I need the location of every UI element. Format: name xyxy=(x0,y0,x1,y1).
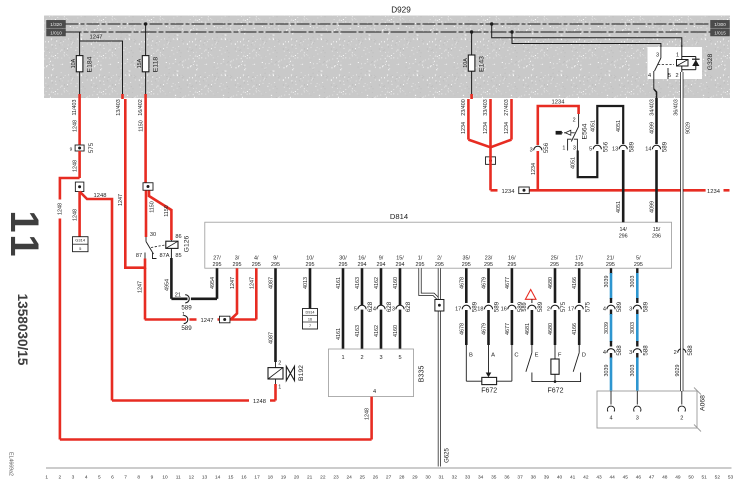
svg-text:C: C xyxy=(514,353,518,359)
connector 3/556 xyxy=(530,142,550,153)
splice 1247 xyxy=(219,316,230,323)
svg-text:1: 1 xyxy=(45,475,48,481)
svg-text:295: 295 xyxy=(435,262,444,268)
svg-text:556: 556 xyxy=(603,141,610,152)
svg-text:15/: 15/ xyxy=(653,227,661,233)
svg-text:3: 3 xyxy=(629,350,632,356)
svg-text:9: 9 xyxy=(70,146,73,152)
svg-text:589: 589 xyxy=(643,301,650,312)
connector 1/589 red xyxy=(181,312,192,332)
svg-text:39: 39 xyxy=(544,475,550,481)
svg-text:E118: E118 xyxy=(152,57,159,73)
svg-text:13: 13 xyxy=(202,475,208,481)
svg-text:6: 6 xyxy=(111,475,114,481)
svg-text:589: 589 xyxy=(181,305,192,312)
wire 1248 bottom run xyxy=(60,438,372,441)
svg-text:16/: 16/ xyxy=(508,256,516,262)
svg-text:4051: 4051 xyxy=(571,157,577,169)
svg-text:11/403: 11/403 xyxy=(72,99,78,115)
svg-text:27/: 27/ xyxy=(213,256,221,262)
wire 1248 branch left xyxy=(55,178,79,440)
svg-text:295: 295 xyxy=(213,262,222,268)
svg-text:1234: 1234 xyxy=(461,122,467,134)
svg-text:295: 295 xyxy=(550,262,559,268)
wire 1247 horizontal xyxy=(145,315,257,325)
svg-text:3/: 3/ xyxy=(235,256,240,262)
connector 5/556 xyxy=(589,141,609,152)
svg-text:1247: 1247 xyxy=(249,277,255,289)
connector A068 box xyxy=(597,388,707,432)
wire 4954 to pin 27/295 xyxy=(210,268,217,299)
svg-text:295: 295 xyxy=(306,262,315,268)
svg-text:A068: A068 xyxy=(700,395,707,411)
relay G328 pin labels xyxy=(648,53,679,80)
svg-text:11: 11 xyxy=(2,210,46,260)
svg-text:35: 35 xyxy=(491,475,497,481)
svg-text:1248: 1248 xyxy=(365,408,371,420)
svg-text:4099: 4099 xyxy=(650,122,656,134)
svg-text:F672: F672 xyxy=(481,388,497,395)
svg-text:588: 588 xyxy=(687,345,694,356)
wire 2/295 to ground xyxy=(438,268,441,466)
svg-text:2: 2 xyxy=(278,361,281,367)
wire 4679 xyxy=(477,268,500,345)
svg-text:1150: 1150 xyxy=(138,120,144,132)
svg-text:14: 14 xyxy=(645,147,651,153)
svg-text:4163: 4163 xyxy=(355,325,361,337)
wire 4099 xyxy=(649,98,656,144)
svg-text:16: 16 xyxy=(308,317,312,321)
ruler scale xyxy=(45,468,733,481)
svg-text:295: 295 xyxy=(339,262,348,268)
svg-text:25/: 25/ xyxy=(551,256,559,262)
svg-text:3003: 3003 xyxy=(630,322,636,334)
wire 1248 to B192 pin1 xyxy=(274,384,277,401)
wire 3039 xyxy=(603,268,623,391)
svg-text:4954: 4954 xyxy=(164,279,170,291)
svg-text:1248: 1248 xyxy=(57,203,63,215)
svg-text:1/: 1/ xyxy=(418,256,423,262)
svg-text:1248: 1248 xyxy=(72,209,78,221)
wire 4099 to D814 pin15 xyxy=(650,150,657,222)
splice 1248 xyxy=(75,182,84,192)
connector 21/589 xyxy=(175,293,192,312)
wire 1247 down from pin87 xyxy=(138,268,145,320)
svg-text:1: 1 xyxy=(278,385,281,391)
svg-text:49: 49 xyxy=(675,475,681,481)
wire 4954 horizontal xyxy=(171,297,217,300)
svg-text:2: 2 xyxy=(675,73,678,79)
svg-text:4051: 4051 xyxy=(616,120,622,132)
svg-text:9/: 9/ xyxy=(379,256,384,262)
svg-text:19: 19 xyxy=(281,475,287,481)
wire 4051 to D814 pin14 xyxy=(616,150,623,222)
svg-text:38: 38 xyxy=(531,475,537,481)
ref box D914 xyxy=(303,309,318,330)
svg-text:589: 589 xyxy=(662,141,669,152)
svg-text:1248: 1248 xyxy=(72,160,78,172)
D814 top pin 15/296 xyxy=(652,227,661,240)
svg-text:4162: 4162 xyxy=(374,325,380,337)
svg-text:30: 30 xyxy=(150,232,156,238)
svg-text:4679: 4679 xyxy=(482,323,488,335)
svg-text:295: 295 xyxy=(416,262,425,268)
sensor F672 pot xyxy=(466,345,518,395)
svg-text:575: 575 xyxy=(560,301,567,312)
svg-text:1/300: 1/300 xyxy=(714,22,726,27)
wire 1248 below 575 xyxy=(72,151,79,178)
svg-text:51: 51 xyxy=(702,475,708,481)
relay G328 coil xyxy=(677,60,689,67)
svg-text:30/: 30/ xyxy=(339,256,347,262)
svg-text:D814: D814 xyxy=(390,212,408,221)
svg-text:G328: G328 xyxy=(707,53,714,70)
svg-text:4954: 4954 xyxy=(210,277,216,289)
wire 4161 xyxy=(336,268,343,349)
svg-text:28: 28 xyxy=(399,475,405,481)
relay G328 contact xyxy=(654,45,674,79)
svg-text:20: 20 xyxy=(294,475,300,481)
svg-text:86: 86 xyxy=(175,234,181,240)
svg-text:35/: 35/ xyxy=(463,256,471,262)
svg-text:24: 24 xyxy=(346,475,352,481)
wire 1248 branch right xyxy=(80,192,276,406)
power feed band xyxy=(44,16,730,99)
svg-text:296: 296 xyxy=(652,234,661,240)
wire bus15 to G328 pin3 xyxy=(512,32,661,51)
wire 4163 xyxy=(355,268,362,349)
svg-text:10/: 10/ xyxy=(306,256,314,262)
svg-text:589: 589 xyxy=(616,301,623,312)
svg-text:32: 32 xyxy=(452,475,458,481)
svg-text:3039: 3039 xyxy=(604,276,610,288)
svg-text:556: 556 xyxy=(543,142,550,153)
doc id EL4669a2 xyxy=(8,452,14,476)
svg-text:E: E xyxy=(535,353,539,359)
svg-text:36/403: 36/403 xyxy=(673,99,679,116)
svg-text:2/: 2/ xyxy=(437,256,442,262)
svg-text:47: 47 xyxy=(649,475,655,481)
svg-text:43: 43 xyxy=(596,475,602,481)
svg-text:29: 29 xyxy=(412,475,418,481)
svg-text:4166: 4166 xyxy=(572,277,578,289)
svg-text:30: 30 xyxy=(425,475,431,481)
svg-text:3: 3 xyxy=(629,307,632,313)
svg-text:295: 295 xyxy=(233,262,242,268)
svg-text:23: 23 xyxy=(333,475,339,481)
connector 5/628 xyxy=(354,301,374,312)
svg-text:1150: 1150 xyxy=(164,205,170,217)
wire 1248 from B335 pin4 xyxy=(365,397,372,440)
svg-text:27: 27 xyxy=(386,475,392,481)
svg-text:1247: 1247 xyxy=(201,318,214,324)
svg-text:295: 295 xyxy=(484,262,493,268)
wire 4087 xyxy=(269,268,276,362)
svg-text:589: 589 xyxy=(181,325,192,332)
svg-text:4051: 4051 xyxy=(616,201,622,213)
svg-text:52: 52 xyxy=(715,475,721,481)
connector 3/628 xyxy=(392,301,412,312)
svg-text:295: 295 xyxy=(575,262,584,268)
svg-text:295: 295 xyxy=(271,262,280,268)
svg-text:4: 4 xyxy=(648,73,651,79)
svg-text:4678: 4678 xyxy=(459,277,465,289)
wire tap 1247 bracket xyxy=(80,35,123,100)
svg-text:4163: 4163 xyxy=(355,277,361,289)
svg-text:295: 295 xyxy=(462,262,471,268)
fuse E118 xyxy=(137,56,159,73)
wire 1150 to G126 pin30 xyxy=(146,191,156,238)
svg-text:5: 5 xyxy=(98,475,101,481)
svg-text:1/010: 1/010 xyxy=(50,30,62,35)
svg-text:16: 16 xyxy=(241,475,247,481)
svg-text:1: 1 xyxy=(182,312,185,318)
A068 pin 3 xyxy=(634,391,641,422)
svg-text:1150: 1150 xyxy=(150,201,156,213)
svg-text:1247: 1247 xyxy=(118,194,124,206)
svg-text:1: 1 xyxy=(341,355,344,361)
svg-text:4161: 4161 xyxy=(336,277,342,289)
svg-text:11: 11 xyxy=(176,475,181,481)
svg-text:E143: E143 xyxy=(478,56,485,72)
svg-text:16/402: 16/402 xyxy=(138,99,144,116)
wire 33/403 red xyxy=(483,99,490,153)
svg-text:F672: F672 xyxy=(548,388,564,395)
svg-text:4678: 4678 xyxy=(459,323,465,335)
svg-text:D914: D914 xyxy=(305,311,314,315)
connector 2/588 white wire xyxy=(674,345,694,377)
wire 1247 pin 4/295 xyxy=(249,268,256,319)
relay G328 diode xyxy=(682,45,700,72)
svg-text:B335: B335 xyxy=(416,366,425,383)
svg-text:4/: 4/ xyxy=(254,256,259,262)
relay G328 body xyxy=(648,47,714,79)
svg-text:EL4669a2: EL4669a2 xyxy=(8,452,14,476)
wire 4680 xyxy=(547,268,567,345)
svg-text:85: 85 xyxy=(175,253,181,259)
svg-text:16: 16 xyxy=(501,307,507,313)
svg-text:4160: 4160 xyxy=(393,277,399,289)
svg-text:17/: 17/ xyxy=(575,256,583,262)
svg-text:42: 42 xyxy=(583,475,589,481)
svg-text:17: 17 xyxy=(455,307,461,313)
svg-text:4677: 4677 xyxy=(505,323,511,335)
junction dot bus/E143 xyxy=(470,30,473,33)
D814 bottom pin labels xyxy=(213,256,643,269)
svg-text:294: 294 xyxy=(396,262,405,268)
warning triangle xyxy=(525,290,536,300)
svg-text:3: 3 xyxy=(379,355,382,361)
svg-text:1/015: 1/015 xyxy=(714,30,726,35)
A068 pin 4 xyxy=(607,391,614,422)
svg-text:7: 7 xyxy=(309,324,311,328)
svg-text:1234: 1234 xyxy=(483,122,489,134)
svg-text:2: 2 xyxy=(674,350,677,356)
junction dot bus/G328a xyxy=(490,22,493,25)
svg-text:575: 575 xyxy=(584,301,591,312)
bus label 1/010 left xyxy=(47,29,66,36)
svg-text:3003: 3003 xyxy=(630,365,636,377)
svg-text:9029: 9029 xyxy=(686,122,692,134)
svg-text:575: 575 xyxy=(88,142,95,153)
svg-text:1247: 1247 xyxy=(138,281,144,293)
wire from pin 1/295 xyxy=(420,268,439,300)
svg-text:21: 21 xyxy=(175,293,181,299)
svg-text:3039: 3039 xyxy=(604,322,610,334)
svg-text:37: 37 xyxy=(517,475,523,481)
svg-text:34/403: 34/403 xyxy=(649,99,655,116)
svg-text:4160: 4160 xyxy=(393,325,399,337)
wire bus30 to G328 pin1 xyxy=(492,24,682,51)
svg-text:296: 296 xyxy=(619,234,628,240)
svg-text:5: 5 xyxy=(398,355,401,361)
svg-text:4087: 4087 xyxy=(269,277,275,289)
svg-text:4679: 4679 xyxy=(482,277,488,289)
svg-text:8: 8 xyxy=(137,475,140,481)
svg-text:40: 40 xyxy=(557,475,563,481)
fuse E143 xyxy=(463,55,485,72)
svg-text:1: 1 xyxy=(676,53,679,59)
svg-text:295: 295 xyxy=(252,262,261,268)
splice 1150 xyxy=(143,183,153,191)
svg-text:2: 2 xyxy=(59,475,62,481)
svg-text:295: 295 xyxy=(606,262,615,268)
relay G126 coil xyxy=(166,234,191,259)
svg-text:41: 41 xyxy=(570,475,576,481)
svg-text:17: 17 xyxy=(254,475,260,481)
sensor F672 switches xyxy=(526,345,586,395)
svg-text:1234: 1234 xyxy=(504,122,510,134)
svg-text:4677: 4677 xyxy=(505,277,511,289)
svg-text:3: 3 xyxy=(656,53,659,59)
wire 1150 to G126 pin86 xyxy=(149,191,171,241)
svg-text:G625: G625 xyxy=(445,448,451,463)
wire 3003 xyxy=(629,268,649,391)
svg-text:2: 2 xyxy=(680,416,683,422)
svg-text:4087: 4087 xyxy=(269,332,275,344)
svg-text:87: 87 xyxy=(136,253,142,259)
svg-text:294: 294 xyxy=(358,262,367,268)
svg-text:34: 34 xyxy=(478,475,484,481)
svg-text:14: 14 xyxy=(215,475,221,481)
connector 13/589 xyxy=(612,141,635,152)
svg-text:3: 3 xyxy=(530,148,533,154)
svg-text:589: 589 xyxy=(628,141,635,152)
svg-text:45: 45 xyxy=(623,475,629,481)
solenoid valve B192 xyxy=(268,361,305,391)
wire 9029 white xyxy=(673,72,691,391)
svg-text:E564: E564 xyxy=(582,123,589,139)
D814 top pin 14/296 xyxy=(619,227,628,240)
svg-text:4680: 4680 xyxy=(548,323,554,335)
svg-text:23/: 23/ xyxy=(485,256,493,262)
svg-text:31: 31 xyxy=(439,475,445,481)
svg-text:589: 589 xyxy=(522,302,528,311)
wire fuse E184 to band exit 11/403 xyxy=(79,72,81,99)
svg-text:4099: 4099 xyxy=(650,201,656,213)
svg-text:4: 4 xyxy=(603,307,606,313)
svg-text:2: 2 xyxy=(573,118,576,124)
svg-text:87A: 87A xyxy=(160,253,170,259)
wire 1248 to G314 ref xyxy=(72,192,79,237)
wire G328 pin4 exit 34/403 xyxy=(654,79,657,98)
svg-text:4: 4 xyxy=(373,307,376,313)
wire 4954 from G126 pin85 xyxy=(164,248,171,298)
svg-text:3: 3 xyxy=(72,475,75,481)
wire 4678 xyxy=(455,268,478,345)
svg-text:588: 588 xyxy=(616,345,623,356)
svg-text:4681: 4681 xyxy=(525,323,531,335)
wire 1247 to relay pin87 xyxy=(125,259,145,268)
svg-text:4: 4 xyxy=(373,389,376,395)
wire 1234 bus xyxy=(491,185,730,195)
svg-text:15/: 15/ xyxy=(396,256,404,262)
svg-text:4051: 4051 xyxy=(590,120,596,132)
svg-text:1248: 1248 xyxy=(94,193,107,199)
control unit D814 box xyxy=(205,212,672,268)
svg-text:4166: 4166 xyxy=(572,323,578,335)
svg-text:9029: 9029 xyxy=(675,365,681,377)
svg-text:10: 10 xyxy=(162,475,168,481)
splice 1234 bus xyxy=(519,187,530,194)
A068 pin 2 xyxy=(678,391,685,422)
svg-text:33/403: 33/403 xyxy=(483,99,489,116)
ground G625 label xyxy=(445,448,451,463)
svg-text:26: 26 xyxy=(373,475,379,481)
svg-text:1234: 1234 xyxy=(531,163,537,175)
svg-text:10A: 10A xyxy=(71,58,77,68)
ground ref box G314 xyxy=(73,237,89,252)
svg-text:628: 628 xyxy=(405,301,412,312)
connector 4/628 xyxy=(373,301,393,312)
splice ground wires xyxy=(435,300,444,312)
bus label 1/300 right xyxy=(711,20,730,27)
svg-text:13/403: 13/403 xyxy=(116,99,122,116)
wire 4162 xyxy=(374,268,381,349)
svg-text:48: 48 xyxy=(662,475,668,481)
bus label 1/320 left xyxy=(47,20,66,27)
wire 1247 from band xyxy=(116,99,125,266)
svg-text:15: 15 xyxy=(228,475,234,481)
svg-text:589: 589 xyxy=(537,301,544,312)
wire 1248 from fuse E184 xyxy=(72,99,80,145)
svg-text:1/320: 1/320 xyxy=(50,22,62,27)
wire 1234 to E564 xyxy=(531,100,579,191)
svg-text:53: 53 xyxy=(728,475,734,481)
svg-text:E184: E184 xyxy=(86,56,93,72)
svg-text:25: 25 xyxy=(360,475,366,481)
wire 4677 xyxy=(501,268,524,345)
svg-text:G314: G314 xyxy=(75,238,86,243)
bus label 1/015 right xyxy=(711,29,730,36)
svg-text:9: 9 xyxy=(151,475,154,481)
wire 4160 xyxy=(393,268,400,349)
wire 4681 xyxy=(522,299,544,345)
wire 27/403 red xyxy=(491,99,512,147)
wire 4166 xyxy=(568,268,591,345)
sheet number 11 xyxy=(2,210,46,260)
wire bus to fuse E184 xyxy=(79,32,81,56)
control unit B335 box xyxy=(329,349,426,397)
svg-text:3: 3 xyxy=(573,145,576,151)
junction dot bus/E118 xyxy=(144,22,147,25)
svg-text:27/403: 27/403 xyxy=(504,99,510,116)
svg-text:23/400: 23/400 xyxy=(461,99,467,116)
svg-text:5: 5 xyxy=(354,307,357,313)
svg-text:A: A xyxy=(491,353,495,359)
svg-text:46: 46 xyxy=(636,475,642,481)
connector 9/575 xyxy=(70,142,96,153)
